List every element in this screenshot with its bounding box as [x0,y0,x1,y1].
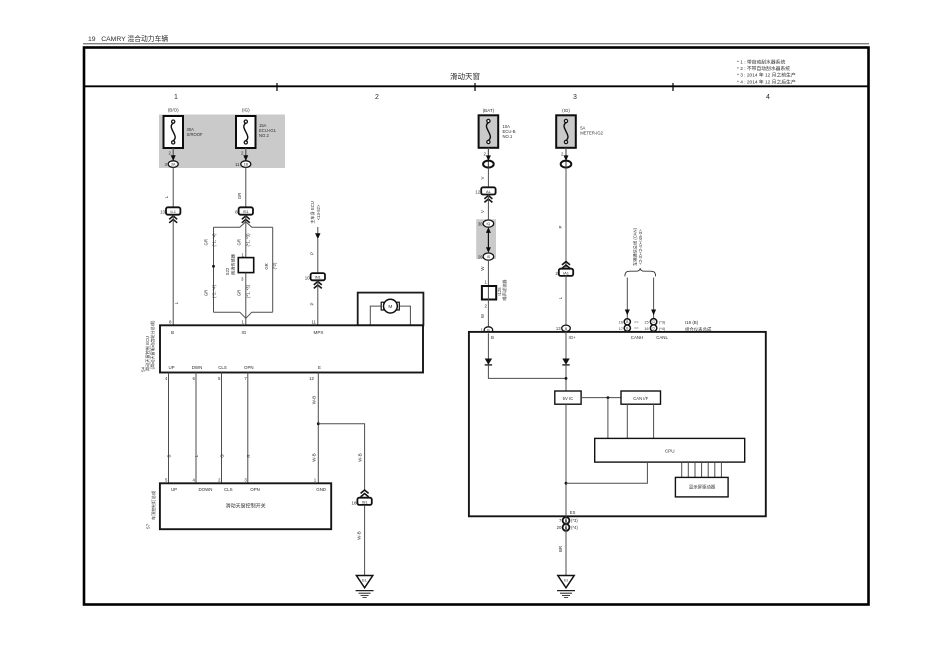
svg-text:15: 15 [644,321,648,325]
svg-text:(*1, *4): (*1, *4) [212,233,217,247]
wire W: noise filter pin 2 to meter pin 1 [480,299,488,332]
svg-text:DOWN: DOWN [199,487,213,492]
svg-text:CAN I/F: CAN I/F [633,396,648,401]
junction block gray band [159,115,285,169]
svg-text:ES: ES [570,510,576,515]
wire L: IA1 to meter pin 13 [558,275,566,332]
svg-text:噪声滤波器: 噪声滤波器 [501,279,508,301]
svg-text:E: E [318,365,321,370]
svg-text:GR: GR [237,239,242,245]
S4 pin 11 MPX [311,320,323,335]
svg-text:B: B [626,320,628,324]
svg-text:(*2, *4): (*2, *4) [212,284,217,298]
svg-text:DWN: DWN [192,365,203,370]
motor M [381,299,399,313]
ground EL [356,576,374,598]
wire 5V IC down to ES [565,404,567,516]
wire P: to connector IA1 [558,167,566,269]
svg-text:10: 10 [305,275,310,280]
svg-text:B: B [626,327,628,331]
svg-text:NO.1: NO.1 [503,134,513,139]
svg-text:3: 3 [573,94,577,101]
svg-text:<13-52>: <13-52> [316,204,321,220]
svg-text:UP: UP [171,487,177,492]
svg-text:26: 26 [478,254,483,259]
fuse F2 15A ECU-IG1 NO.2 [236,108,277,149]
splice: merge three branches to S4 pin 1 [214,312,273,325]
connector B pin 13 at meter [556,325,570,331]
sliding roof ECU S4 box [141,320,424,373]
column grid ticks [277,83,673,91]
svg-text:V: V [480,210,485,213]
svg-text:METER-IG2: METER-IG2 [580,131,603,136]
svg-text:16: 16 [619,321,623,325]
bus lines CPU to display driver [682,462,722,477]
junction block gray box col3 [476,219,496,259]
connector IN1 pin 10 [305,273,325,288]
wire S22 pin3 down [245,273,247,319]
left branch wire GR (*1,*4) [204,227,217,312]
connector AL pin 12 [475,187,495,202]
svg-text:S/ROOF: S/ROOF [187,132,203,137]
svg-text:I19 (B): I19 (B) [685,320,699,325]
meter top pin labels [491,335,668,340]
fuse F1 30A S/ROOF [164,108,203,149]
connector B pin 7 (*3) [559,517,578,524]
svg-text:UP: UP [168,365,174,370]
junction on ground wire [317,422,320,425]
svg-text:M: M [388,304,392,310]
svg-text:<2-3><2-4><45-3>: <2-3><2-4><45-3> [638,229,643,265]
wire fuse F1 pin 2 to connector 3A [169,148,176,167]
svg-text:* 3 : 2014 年 12 月之前生产: * 3 : 2014 年 12 月之前生产 [737,72,796,79]
svg-text:IG: IG [242,330,247,335]
diode D1 on B line [485,333,492,365]
svg-text:(滑动天窗驱动齿轮分总成): (滑动天窗驱动齿轮分总成) [149,320,156,369]
svg-text:滑动天窗: 滑动天窗 [450,71,480,81]
CANL in-line connectors 17(B)==16(D)(*4) [619,325,666,331]
svg-text:G: G [220,454,225,458]
svg-text:* 4 : 2014 年 12 月之后生产: * 4 : 2014 年 12 月之后生产 [737,78,796,85]
svg-text:(*1, *3): (*1, *3) [246,233,251,247]
connector IS1 pin 8 [235,207,253,223]
CAN bus label [631,227,643,266]
svg-text:EI: EI [564,578,568,583]
wire motor left terminal [370,306,382,325]
svg-text:IS1: IS1 [243,209,250,214]
svg-text:20: 20 [557,525,562,530]
connector B pin 1 at meter [481,327,493,333]
svg-text:1: 1 [174,94,178,101]
svg-text:V: V [480,176,485,179]
svg-text:==: == [634,326,639,330]
S4 pin 1 IG [242,320,247,335]
wire R: S4 OPN to switch pin 3 [246,373,251,484]
CAN brace [625,268,656,276]
svg-text:B: B [167,454,172,457]
connector oval below F3 [483,161,494,168]
svg-text:GR: GR [264,263,269,269]
svg-text:OPN: OPN [244,365,254,370]
sunroof motor enclosure [358,293,424,326]
svg-text:13: 13 [556,326,561,331]
wire 5V IC to CAN I/F [581,397,621,399]
svg-text:30: 30 [478,222,483,227]
wire from D1 to IG node [488,365,566,379]
CANH in-line connectors 16(B)==15(D)(*3) [619,319,666,325]
wire CANH [625,278,630,392]
svg-text:IG+: IG+ [569,335,577,340]
svg-text:2: 2 [375,94,379,101]
svg-text:IL1: IL1 [170,209,176,214]
wire W: to noise filter [480,260,488,300]
svg-text:4: 4 [766,94,770,101]
svg-text:EL: EL [362,578,368,583]
wire IG to 5V IC [565,365,567,391]
noise filter I125 [482,279,508,301]
svg-text:(BAT): (BAT) [483,108,495,113]
svg-text:B: B [171,330,174,335]
connector IQ pin 30 [478,220,494,227]
svg-text:(*3): (*3) [571,518,578,523]
fuse F3 10A ECU-B NO.1 [479,108,516,148]
svg-text:NO.2: NO.2 [259,133,269,138]
junction dot ES branch [565,482,568,485]
svg-text:W-B: W-B [357,453,362,462]
wire V: AL to junction pair [480,195,488,221]
svg-text:(*4): (*4) [659,327,666,331]
svg-text:W-B: W-B [356,531,361,540]
wire L: S4 DWN to switch pin 4 [194,373,199,484]
svg-text:17: 17 [619,327,623,331]
CAN I/F block [621,391,661,404]
middle branch labels GR (*1,*3) [237,233,251,298]
svg-text:CANL: CANL [656,335,668,340]
wire L: IL1 to S4 pin 8 [173,215,179,326]
svg-text:OPN: OPN [250,487,260,492]
wire fuse F4 pin 2 to connector [561,148,568,167]
svg-text:13: 13 [160,210,165,215]
S4 bottom pin labels [168,365,321,370]
wire W-B branch to ground [318,424,364,491]
svg-text:(*4): (*4) [571,525,578,530]
junction dot on left branch [212,265,215,268]
svg-text:* 2 : 不带自动刮水器系统: * 2 : 不带自动刮水器系统 [737,65,790,72]
display driver block [675,477,728,497]
svg-text:GND: GND [316,487,326,492]
svg-text:MPX: MPX [314,330,324,335]
svg-text:5V IC: 5V IC [563,396,573,401]
fuse F4 5A METER-IG2 [556,108,603,148]
svg-text:16: 16 [644,327,648,331]
svg-text:P: P [310,302,315,305]
wire W-B: S4 E to switch GND [312,373,319,484]
svg-text:19 CAMRY 混合动力车辆: 19 CAMRY 混合动力车辆 [88,34,168,43]
notes *1-*4 [737,59,796,86]
wire branch to CPU bottom [566,462,647,483]
wire B: S4 UP to switch pin 5 [167,373,172,484]
regulator 5V IC [555,391,581,404]
S7 top pin labels [171,487,326,492]
svg-text:BR: BR [558,546,563,552]
svg-text:CLS: CLS [218,365,227,370]
wire fuse F3 pin 2 to connector [484,148,491,167]
connector 3A [165,161,179,168]
svg-text:11: 11 [311,320,316,325]
svg-text:CLS: CLS [224,487,233,492]
rain sensor S22 [225,253,254,282]
wire P: IN1 to S4 pin 11 [310,280,318,325]
diode D2 on IG line [562,332,569,365]
svg-text:R: R [246,454,251,457]
svg-text:GR: GR [237,193,242,200]
connector B pin 20 (*4) [557,524,579,531]
connector 1B [235,161,251,168]
wire L: 3A to IL1 [164,167,173,207]
svg-text:GR: GR [204,239,209,245]
node: from main body ECU <13-52> [309,201,321,239]
svg-text:CANH: CANH [631,335,643,340]
svg-text:S22: S22 [225,267,230,275]
connector IS pin 26 [478,253,494,260]
wire BR to ground EI [558,516,566,575]
wire W-B to ground EL [356,505,364,576]
page header text [83,34,869,44]
svg-text:CPU: CPU [665,448,675,453]
svg-text:GR: GR [237,290,242,296]
connector IL1 pin 13 [160,207,180,223]
svg-text:滑动天窗控制开关: 滑动天窗控制开关 [226,503,266,510]
svg-text:B: B [491,335,494,340]
svg-text:W-B: W-B [312,396,317,405]
svg-text:P: P [310,252,315,255]
junction dot to CPU [607,396,610,399]
wire GR: 1B to IS1 [237,167,246,207]
junction dot B/IG [565,377,568,380]
svg-text:P: P [558,225,563,228]
connector oval below F4 [561,161,572,168]
svg-text:GR: GR [204,290,209,296]
svg-text:W-B: W-B [312,453,317,462]
svg-text:==: == [634,320,639,324]
svg-text:IA1: IA1 [563,270,570,275]
svg-text:显示屏驱动器: 显示屏驱动器 [689,483,716,490]
wire V: to connector AL [480,167,488,187]
svg-text:(*3): (*3) [659,321,666,325]
svg-text:12: 12 [475,190,480,195]
svg-text:车顶控制灯总成: 车顶控制灯总成 [150,491,157,520]
wire P: arrow to IN1 [310,239,318,273]
svg-text:1B: 1B [244,163,249,167]
sunroof control switch S7 box [146,483,332,529]
svg-text:雨滴传感器: 雨滴传感器 [229,253,236,275]
splice: split into three branches [214,215,273,258]
svg-text:11: 11 [235,162,240,167]
wire junction to CPU [607,398,609,439]
svg-text:IN1: IN1 [315,275,322,280]
combination meter I19 box [469,332,766,516]
wire G: S4 CLS to switch pin 2 [220,373,225,484]
wires CAN I/F to CPU [627,404,653,438]
wire motor right terminal [399,306,411,325]
combination meter designator I19 [685,320,712,333]
svg-text:AL: AL [486,189,492,194]
svg-text:(B/O): (B/O) [168,108,179,113]
column numbers [174,94,770,101]
connector IS1 pin 18 on ground branch [352,490,372,505]
S7 top pin numbers [165,478,317,483]
svg-text:IQ: IQ [487,222,491,226]
svg-text:(IG): (IG) [242,108,250,113]
connector IA1 pin 2 [555,262,573,277]
right branch wire GR (*2) [264,227,277,312]
wire CANL [651,278,656,392]
svg-text:IS1: IS1 [362,499,369,504]
S4 pin 8 B [169,320,174,335]
svg-text:S7: S7 [146,523,151,529]
wire fuse F2 pin 2 to connector 1B [241,148,248,167]
svg-text:3A: 3A [171,163,176,167]
ground EI [557,576,575,598]
svg-text:* 1 : 带自动刮水器系统: * 1 : 带自动刮水器系统 [737,59,785,66]
CPU block [595,438,745,462]
svg-text:(IG): (IG) [562,108,570,113]
svg-text:12: 12 [309,376,314,381]
svg-text:18: 18 [352,500,357,505]
svg-text:(*2): (*2) [272,262,277,269]
mating arrows between connectors [486,227,491,253]
